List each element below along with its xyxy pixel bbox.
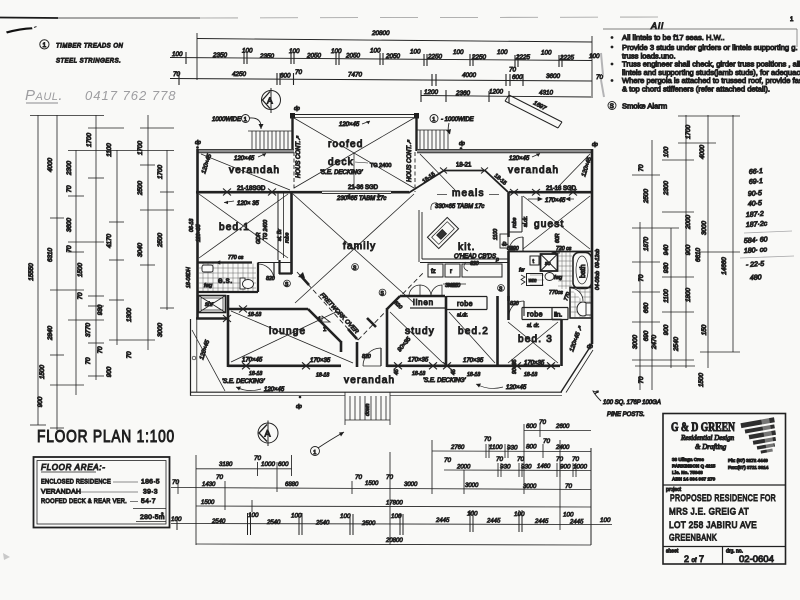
shr shower — [199, 296, 226, 313]
linen — [387, 296, 400, 309]
note circle 1 — [40, 40, 49, 49]
svg-text:study: study — [405, 326, 435, 337]
e.s. tiles — [199, 264, 256, 292]
svg-text:6310: 6310 — [47, 248, 54, 263]
bottom wall study/bed2/bed3 — [387, 364, 560, 367]
svg-text:4310: 4310 — [539, 90, 554, 97]
svg-text:70: 70 — [543, 438, 551, 445]
svg-text:4000: 4000 — [47, 158, 54, 173]
svg-text:04-06ob: 04-06ob — [595, 271, 601, 290]
svg-text:fwg: fwg — [554, 275, 562, 281]
svg-text:170×35: 170×35 — [408, 358, 429, 364]
svg-text:TIMBER TREADS ON: TIMBER TREADS ON — [56, 44, 124, 50]
svg-text:70: 70 — [444, 457, 452, 464]
svg-text:kit.: kit. — [458, 242, 476, 253]
svg-text:330×65 TABM 17c: 330×65 TABM 17c — [435, 204, 484, 210]
svg-text:170×35: 170×35 — [463, 358, 484, 364]
svg-text:2445: 2445 — [435, 518, 450, 524]
svg-text:100: 100 — [291, 513, 302, 520]
deck roof diagonals — [294, 118, 414, 189]
svg-text:120× 35: 120× 35 — [237, 201, 260, 207]
svg-text:2000: 2000 — [456, 465, 471, 471]
svg-text:20800: 20800 — [385, 538, 403, 544]
svg-text:linen: linen — [413, 298, 434, 307]
svg-text:600: 600 — [526, 423, 537, 430]
svg-text:100: 100 — [340, 513, 351, 520]
svg-text:down: down — [365, 403, 371, 416]
svg-text:6880: 6880 — [285, 482, 299, 488]
stairs top-left — [248, 131, 293, 150]
svg-text:robe: robe — [512, 218, 518, 228]
bottom-right chamfer — [561, 344, 592, 392]
dim total 20800 top — [197, 39, 592, 43]
svg-text:1000WIDE: 1000WIDE — [212, 117, 242, 123]
svg-text:3000: 3000 — [701, 221, 708, 236]
roofed deck top edge — [292, 114, 418, 116]
svg-text:120×45: 120×45 — [506, 385, 527, 391]
svg-text:14660: 14660 — [721, 257, 728, 275]
svg-text:2500: 2500 — [137, 181, 144, 197]
svg-text:2500: 2500 — [643, 189, 650, 205]
svg-text:2300: 2300 — [663, 181, 670, 197]
svg-text:120×35: 120×35 — [196, 224, 202, 242]
lounge walls — [228, 308, 308, 311]
svg-text:900: 900 — [37, 396, 44, 407]
svg-text:O'HEAD CB'DS: O'HEAD CB'DS — [454, 254, 496, 260]
svg-text:1000: 1000 — [573, 464, 588, 471]
svg-text:600: 600 — [280, 73, 291, 80]
logo — [740, 415, 780, 458]
svg-text:70: 70 — [126, 351, 133, 359]
svg-text:- 1000WIDE: - 1000WIDE — [441, 117, 475, 123]
pergola beam 1697 top-right — [505, 101, 558, 128]
svg-text:70: 70 — [355, 474, 363, 481]
smoke alarm lounge — [284, 280, 291, 287]
left outer wall — [196, 149, 199, 319]
svg-text:1200: 1200 — [489, 89, 504, 96]
svg-text:2600: 2600 — [555, 424, 570, 430]
svg-text:A: A — [265, 429, 271, 439]
svg-text:sl.dr.: sl.dr. — [457, 313, 468, 319]
svg-text:3-620: 3-620 — [445, 283, 458, 289]
row 20800 bottom — [196, 544, 591, 545]
e.s. bottom wall — [197, 291, 258, 293]
svg-text:Fax:(07) 3711 3814: Fax:(07) 3711 3814 — [728, 465, 769, 470]
svg-text:PARKINSON Q 4115: PARKINSON Q 4115 — [672, 464, 716, 469]
svg-text:170×45: 170×45 — [545, 198, 566, 204]
svg-text:dp: dp — [294, 106, 300, 112]
svg-text:1100: 1100 — [663, 289, 670, 303]
right outer wall — [591, 149, 594, 344]
svg-text:45: 45 — [451, 369, 457, 375]
svg-text:900: 900 — [663, 324, 670, 335]
svg-text:3600: 3600 — [546, 73, 561, 80]
svg-text:120×45: 120×45 — [339, 122, 360, 128]
svg-text:930: 930 — [663, 262, 670, 273]
svg-text:2360: 2360 — [455, 90, 471, 97]
row 3180 — [196, 468, 292, 470]
svg-text:2470: 2470 — [651, 335, 658, 351]
svg-text:170×45: 170×45 — [242, 358, 263, 364]
svg-text:dp: dp — [459, 141, 465, 147]
svg-text:deck: deck — [328, 157, 354, 168]
svg-text:r: r — [450, 269, 452, 275]
pencil streaks — [601, 53, 603, 75]
row 2000 930 930 1460 900 1000 — [444, 469, 591, 472]
svg-text:100 SQ. 176P 100GA: 100 SQ. 176P 100GA — [603, 400, 661, 406]
svg-text:2300: 2300 — [66, 161, 73, 177]
stair annotation top-right 1000WIDE — [430, 115, 438, 123]
stairs bottom — [345, 392, 390, 425]
svg-text:170×35: 170×35 — [524, 361, 545, 367]
svg-text:1: 1 — [432, 117, 435, 123]
svg-text:ABN 14 864 967 279: ABN 14 864 967 279 — [672, 477, 716, 482]
meals bay walls — [409, 171, 445, 194]
svg-text:'S.E. DECKING': 'S.E. DECKING' — [423, 378, 466, 384]
svg-text:1500: 1500 — [365, 481, 379, 487]
svg-text:verandah: verandah — [344, 375, 395, 386]
bed3 entry + robe — [507, 296, 510, 320]
svg-text:70: 70 — [85, 357, 92, 365]
svg-text:All lintels to be f17 seas. H.: All lintels to be f17 seas. H.W.. — [622, 33, 725, 42]
svg-text:PROPOSED RESIDENCE FOR: PROPOSED RESIDENCE FOR — [670, 493, 776, 504]
svg-text:90·5: 90·5 — [748, 190, 763, 198]
svg-text:70: 70 — [638, 164, 645, 172]
kitchen island bench — [427, 217, 458, 248]
svg-text:70: 70 — [216, 474, 224, 481]
svg-text:1: 1 — [244, 117, 247, 123]
left rotated dimension labels — [28, 133, 164, 408]
svg-text:3000: 3000 — [404, 482, 418, 488]
svg-text:3180: 3180 — [219, 462, 233, 468]
svg-text:2445: 2445 — [486, 519, 501, 525]
svg-text:family: family — [343, 241, 376, 252]
svg-text:GDR: GDR — [256, 232, 262, 244]
svg-text:70: 70 — [572, 456, 580, 463]
svg-text:70: 70 — [484, 436, 492, 443]
svg-text:120×45: 120×45 — [509, 156, 530, 162]
svg-text:1200: 1200 — [424, 89, 439, 96]
svg-text:820: 820 — [266, 276, 275, 282]
svg-text:02-0604: 02-0604 — [739, 554, 774, 565]
svg-text:100: 100 — [541, 50, 552, 57]
svg-text:800: 800 — [526, 444, 537, 451]
svg-text:2400: 2400 — [555, 445, 570, 451]
paper edge line — [603, 28, 797, 30]
svg-text:70: 70 — [66, 185, 73, 193]
svg-text:3000: 3000 — [465, 483, 479, 489]
smoke alarm legend — [608, 102, 616, 110]
svg-text:2050: 2050 — [306, 53, 322, 60]
svg-text:1800: 1800 — [685, 288, 692, 303]
svg-text:69·1: 69·1 — [749, 178, 764, 186]
svg-text:All: All — [650, 21, 664, 31]
fretwork over dashed — [297, 272, 358, 340]
pencil calculation column — [744, 168, 768, 282]
svg-text:39·3: 39·3 — [143, 489, 158, 496]
row 2760 1100 930 800 2400 — [432, 450, 591, 453]
guest room — [507, 193, 510, 237]
svg-text:18-18: 18-18 — [524, 372, 537, 378]
svg-text:60R: 60R — [555, 233, 561, 243]
svg-text:'S.E. DECKING': 'S.E. DECKING' — [320, 170, 363, 176]
svg-text:70: 70 — [556, 456, 564, 463]
hall smoke alarm — [498, 285, 505, 292]
roofed deck side walls — [291, 115, 293, 151]
svg-text:verandah: verandah — [508, 165, 559, 176]
svg-text:930: 930 — [507, 445, 518, 452]
svg-text:sl. dr.: sl. dr. — [527, 323, 540, 329]
svg-text:GREENBANK: GREENBANK — [669, 533, 717, 544]
svg-text:TG 2400: TG 2400 — [263, 220, 269, 240]
svg-text:dp: dp — [296, 404, 302, 410]
svg-text:shr: shr — [205, 302, 214, 308]
svg-text:100: 100 — [589, 53, 600, 60]
svg-text:1700: 1700 — [137, 141, 144, 156]
svg-text:90×35: 90×35 — [512, 359, 518, 374]
hall wall to family — [278, 260, 280, 274]
svg-text:PINE POSTS.: PINE POSTS. — [607, 412, 645, 418]
entry door — [363, 365, 381, 367]
row 2540s 2445s — [171, 524, 612, 525]
svg-text:600: 600 — [512, 74, 523, 81]
svg-text:120×45: 120×45 — [234, 156, 255, 162]
svg-text:170×35: 170×35 — [310, 358, 331, 364]
svg-text:TG 2400: TG 2400 — [370, 163, 391, 169]
svg-text:HOUS CONT.↗: HOUS CONT.↗ — [296, 135, 302, 178]
svg-text:3000: 3000 — [157, 323, 164, 338]
svg-text:900: 900 — [560, 464, 571, 471]
svg-text:3040: 3040 — [137, 243, 144, 258]
svg-text:lin.: lin. — [554, 312, 563, 319]
svg-text:900: 900 — [685, 244, 692, 255]
svg-text:21-36 SGD: 21-36 SGD — [348, 185, 379, 191]
svg-text:sl.dr.: sl.dr. — [523, 216, 529, 227]
svg-text:bath: bath — [580, 264, 587, 278]
svg-text:2500: 2500 — [361, 521, 376, 527]
svg-text:2540: 2540 — [211, 519, 226, 525]
svg-text:1500: 1500 — [698, 373, 705, 388]
svg-text:54·7: 54·7 — [141, 498, 156, 505]
scan top paper edge — [0, 17, 58, 20]
svg-text:so: so — [545, 261, 551, 267]
scan corner mark top-left — [6, 27, 33, 33]
svg-text:fz: fz — [431, 269, 436, 275]
svg-text:100: 100 — [453, 49, 464, 56]
dim row 2350 2050 2250 2225 — [170, 58, 592, 61]
svg-text:70: 70 — [565, 483, 573, 490]
svg-text:2840: 2840 — [47, 326, 54, 342]
svg-text:p: p — [495, 257, 499, 263]
svg-text:06-18: 06-18 — [189, 219, 195, 232]
svg-text:2760: 2760 — [450, 445, 465, 451]
svg-text:0417 762 778: 0417 762 778 — [85, 88, 177, 103]
svg-text:900: 900 — [106, 366, 113, 377]
svg-text:930: 930 — [521, 464, 532, 471]
svg-text:meals: meals — [452, 188, 485, 199]
svg-text:45: 45 — [394, 369, 400, 375]
svg-text:100: 100 — [514, 511, 525, 518]
svg-text:'S.E. DECKING': 'S.E. DECKING' — [222, 379, 265, 385]
svg-text:770cs: 770cs — [549, 290, 563, 296]
svg-text:- 22·5: - 22·5 — [746, 261, 765, 269]
svg-text:70: 70 — [295, 69, 303, 76]
fz r boxes — [428, 264, 443, 277]
svg-text:100: 100 — [370, 48, 381, 55]
wall under shr — [196, 317, 228, 319]
family top wall / deck south — [292, 191, 322, 194]
svg-text:sheet: sheet — [666, 549, 679, 555]
svg-text:↗: ↗ — [594, 390, 599, 396]
svg-text:2540: 2540 — [673, 337, 680, 353]
svg-text:robe: robe — [285, 233, 291, 243]
svg-text:100: 100 — [248, 512, 259, 519]
svg-text:1100: 1100 — [106, 143, 113, 157]
svg-text:2445: 2445 — [534, 519, 549, 525]
house continuation dashed lines — [293, 152, 295, 192]
bath cluster — [508, 251, 592, 253]
svg-text:G & D GREEN: G & D GREEN — [671, 419, 735, 434]
study/bed2 robe — [445, 296, 448, 367]
svg-text:70: 70 — [638, 376, 645, 384]
svg-text:6610: 6610 — [695, 248, 702, 263]
svg-text:1460: 1460 — [537, 464, 551, 470]
svg-text:187·2: 187·2 — [746, 211, 764, 219]
section marker A top — [262, 91, 281, 110]
svg-text:480: 480 — [750, 274, 762, 282]
dim row 1200 2360 1200 4310 — [421, 96, 591, 98]
wm — [527, 274, 543, 286]
svg-text:1700: 1700 — [86, 133, 93, 148]
svg-text:bed. 3: bed. 3 — [518, 334, 553, 345]
svg-text:100: 100 — [563, 512, 574, 519]
svg-text:LOT 258 JABIRU AVE: LOT 258 JABIRU AVE — [669, 520, 757, 531]
svg-text:15550: 15550 — [28, 263, 35, 281]
svg-text:Lic. No. 75948: Lic. No. 75948 — [672, 470, 703, 475]
bath tub — [573, 253, 592, 289]
svg-text:930: 930 — [97, 304, 104, 315]
svg-text:70: 70 — [77, 292, 84, 300]
section marker A bottom — [258, 423, 278, 443]
svg-text:100: 100 — [410, 49, 421, 56]
svg-text:18-18: 18-18 — [248, 312, 261, 318]
stairs top-right — [417, 130, 448, 150]
svg-text:18-21: 18-21 — [456, 163, 472, 169]
svg-text:1430: 1430 — [202, 482, 216, 488]
svg-text:e.s.: e.s. — [218, 276, 233, 285]
svg-text:ENCLOSED RESIDENCE: ENCLOSED RESIDENCE — [41, 479, 111, 486]
svg-text:HOUS CONT.↗: HOUS CONT.↗ — [407, 139, 413, 182]
svg-text:100: 100 — [497, 49, 508, 56]
svg-text:FLOOR PLAN 1:100: FLOOR PLAN 1:100 — [37, 426, 175, 446]
svg-text:verandah: verandah — [229, 165, 280, 176]
verandah top-left wall — [197, 149, 294, 152]
svg-text:70: 70 — [638, 274, 645, 282]
svg-text:1: 1 — [43, 42, 47, 49]
svg-text:820: 820 — [510, 301, 519, 307]
svg-text:2540: 2540 — [315, 521, 330, 527]
svg-text:& Drafting: & Drafting — [695, 443, 727, 451]
svg-text:100: 100 — [600, 517, 611, 524]
svg-text:robe: robe — [457, 301, 473, 308]
svg-text:3770: 3770 — [85, 323, 92, 338]
guest robe — [521, 196, 523, 232]
svg-text:1700: 1700 — [685, 125, 692, 140]
scan mark bottom-left — [3, 553, 10, 560]
svg-text:18-06DH: 18-06DH — [186, 267, 192, 288]
long row 1430 6880 1500 3000 3000 3000 70 — [171, 488, 591, 490]
svg-text:1870: 1870 — [643, 237, 650, 252]
svg-text:4000: 4000 — [699, 145, 706, 160]
svg-text:2350: 2350 — [212, 52, 228, 59]
svg-text:MRS J.E. GREIG AT: MRS J.E. GREIG AT — [669, 507, 749, 518]
svg-text:4250: 4250 — [232, 71, 247, 78]
verandah top-right wall — [417, 149, 592, 152]
svg-text:18-18: 18-18 — [316, 373, 329, 379]
svg-text:2540: 2540 — [266, 520, 281, 526]
svg-text:230×65 TABM 17c: 230×65 TABM 17c — [336, 196, 386, 202]
svg-text:wm: wm — [529, 278, 538, 284]
svg-text:& top chord stiffeners (refer: & top chord stiffeners (refer attached d… — [622, 85, 770, 94]
svg-text:2: 2 — [161, 512, 164, 517]
svg-text:70: 70 — [517, 456, 525, 463]
svg-text:ROOFED DECK & REAR VER.: ROOFED DECK & REAR VER. — [41, 498, 127, 505]
guest top wall — [509, 191, 592, 194]
svg-text:120×45: 120×45 — [264, 387, 285, 393]
svg-text:2225: 2225 — [559, 55, 575, 62]
pencil note Paul phone — [25, 87, 177, 104]
lounge bottom wall — [228, 364, 341, 367]
svg-text:600: 600 — [278, 461, 289, 468]
kitchen — [418, 210, 420, 262]
svg-text:4170: 4170 — [106, 234, 113, 249]
svg-text:1700: 1700 — [157, 165, 164, 180]
svg-text:2225: 2225 — [515, 54, 531, 61]
svg-text:3600: 3600 — [66, 218, 73, 233]
svg-text:2250: 2250 — [427, 54, 443, 61]
svg-text:dp: dp — [592, 142, 598, 148]
dim row 70 4250 600 7470 4000 600 3600 70 — [170, 79, 592, 82]
svg-text:fwg: fwg — [204, 283, 212, 289]
svg-text:A: A — [267, 96, 273, 106]
svg-text:66·1: 66·1 — [749, 168, 764, 176]
study — [386, 308, 389, 367]
svg-text:186·5: 186·5 — [141, 479, 160, 486]
svg-text:150: 150 — [701, 324, 708, 335]
svg-text:690: 690 — [643, 330, 650, 341]
svg-text:1000: 1000 — [261, 461, 276, 468]
svg-text:820: 820 — [362, 354, 371, 360]
svg-text:940: 940 — [663, 244, 670, 255]
svg-text:STEEL STRINGERS.: STEEL STRINGERS. — [56, 59, 121, 65]
svg-text:660: 660 — [643, 302, 650, 313]
bed1 robe strip — [277, 192, 279, 260]
svg-text:Residential Design: Residential Design — [680, 434, 735, 442]
notes bullet list — [611, 33, 800, 94]
svg-text:2050: 2050 — [385, 53, 401, 60]
svg-text:Ph: (07) 3272 4440: Ph: (07) 3272 4440 — [728, 458, 768, 463]
svg-text:st. Br: st. Br — [277, 229, 283, 241]
svg-text:100: 100 — [172, 51, 183, 58]
svg-text:930: 930 — [500, 464, 511, 471]
svg-text:770 cs: 770 cs — [228, 255, 244, 261]
svg-text:1500: 1500 — [39, 365, 46, 380]
svg-text:2500: 2500 — [157, 233, 164, 249]
svg-text:dp: dp — [195, 140, 201, 146]
svg-text:70: 70 — [97, 346, 104, 354]
svg-text:40·5: 40·5 — [748, 200, 763, 208]
svg-text:2445: 2445 — [569, 520, 584, 526]
